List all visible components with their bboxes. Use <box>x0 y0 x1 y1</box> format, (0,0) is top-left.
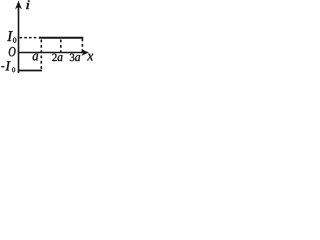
y-axis (i axis) <box>18 7 20 74</box>
tick label 3a <box>70 54 80 61</box>
dashed vertical at x=a joining -I0 and +I0 <box>40 40 42 70</box>
solid graph segment i = -I0 from 0 to a <box>18 70 42 72</box>
x-axis (x axis) <box>18 52 84 54</box>
dashed vertical at x=3a from I0 line down to x-axis <box>81 39 83 52</box>
origin label O <box>9 47 16 56</box>
dashed guide at I0 level from y-axis to x=a <box>20 37 39 39</box>
dashed vertical at x=2a from I0 line to x-axis <box>60 40 62 52</box>
level label I0 <box>7 31 16 42</box>
tick label 2a <box>52 54 62 61</box>
y-axis arrowhead <box>15 1 22 10</box>
axis label x <box>87 54 93 61</box>
level label -I0 <box>1 61 15 72</box>
axis label i <box>26 0 30 9</box>
solid graph segment i = +I0 from a to 3a <box>39 37 84 39</box>
x-axis arrowhead <box>81 49 89 56</box>
tick label a <box>33 54 38 61</box>
